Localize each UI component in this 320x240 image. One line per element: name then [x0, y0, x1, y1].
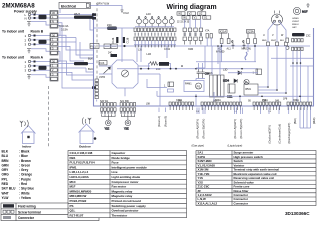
- svg-text:FU2: FU2: [124, 11, 130, 15]
- svg-text:LED1-9,LEDA: LED1-9,LEDA: [70, 175, 90, 179]
- svg-text:L20: L20: [146, 12, 151, 16]
- svg-text:: Grey: : Grey: [19, 168, 28, 172]
- connector S20 pins below bottom edge: [101, 108, 117, 111]
- svg-text:Y1E: Y1E: [105, 128, 110, 131]
- svg-text:M1F: M1F: [70, 185, 76, 189]
- svg-text:Room B: Room B: [31, 30, 44, 34]
- wire indoor Room B pin 1: [31, 35, 50, 37]
- connector X50A pins: [253, 102, 281, 105]
- wire bracket Y1E: [102, 114, 115, 120]
- svg-text:V2: V2: [189, 12, 193, 16]
- wire indoor Room B pin 2: [31, 39, 50, 41]
- svg-text:Intelligent power module: Intelligent power module: [112, 165, 148, 169]
- unit boundary dashed line lower: [48, 86, 50, 148]
- svg-text:: Sky blue: : Sky blue: [19, 187, 34, 191]
- svg-text:Capacitor: Capacitor: [112, 151, 127, 155]
- fan motor M1F symbol: [293, 7, 307, 14]
- wire compressor W: [279, 22, 286, 43]
- svg-text:: Yellow: : Yellow: [19, 196, 31, 200]
- svg-text:GRY: GRY: [2, 168, 10, 172]
- svg-text:: Red: : Red: [19, 182, 27, 186]
- indoor unit antenna: [20, 121, 23, 127]
- svg-text:W1: W1: [183, 16, 187, 20]
- svg-text:Thermistor: Thermistor: [112, 213, 129, 217]
- svg-text:32 33 34 35: 32 33 34 35: [177, 22, 190, 24]
- wire indoor Room B pin 3: [31, 43, 50, 45]
- svg-text:Diode bridge: Diode bridge: [112, 156, 131, 160]
- svg-text:: White: : White: [19, 191, 30, 195]
- diode arrow D5: [104, 67, 111, 74]
- svg-text:Connector: Connector: [234, 201, 249, 205]
- svg-text:U/RED: U/RED: [292, 18, 299, 20]
- svg-text:C: C: [232, 41, 234, 44]
- svg-text:WHT: WHT: [74, 12, 80, 16]
- ground indoor Room A earth symbol: [27, 75, 31, 79]
- svg-text:N: N: [25, 17, 27, 21]
- wire compressor leads to bus: [268, 45, 286, 47]
- connector X3A bank: [183, 28, 203, 41]
- wire bank2 pins: [185, 41, 201, 45]
- svg-text:BLK: BLK: [88, 57, 93, 61]
- svg-text:(Room A): (Room A): [157, 116, 161, 127]
- svg-text:: Brown: : Brown: [19, 159, 31, 163]
- node junction dots: [181, 45, 287, 94]
- svg-text:SKY BLU: SKY BLU: [2, 187, 17, 191]
- svg-text:Live: Live: [112, 170, 118, 174]
- wire reactor feed vertical: [217, 46, 219, 64]
- wire expansion valve harness right: [300, 108, 311, 129]
- connector X106A pins row 1: [292, 39, 304, 42]
- wire center vertical drops: [122, 46, 240, 106]
- wire fan bus down: [290, 51, 314, 106]
- field wiring symbol: [3, 204, 36, 208]
- svg-text:L1R,L1,L2,L4: L1R,L1,L2,L4: [70, 170, 89, 174]
- svg-text:X11A,AL1,AL2: X11A,AL1,AL2: [198, 201, 218, 205]
- svg-text:N: N: [52, 20, 54, 24]
- svg-text:(RED): (RED): [314, 117, 316, 124]
- connector compressor terminals: [267, 42, 288, 46]
- screw terminal symbol: [3, 210, 41, 214]
- wire label smudges below pins: [101, 112, 136, 114]
- wire color labels compressor: [262, 40, 285, 42]
- svg-text:BLK: BLK: [280, 40, 285, 42]
- svg-text:Switching power supply: Switching power supply: [112, 204, 147, 208]
- thermistor leads outdoor/condenser/discharge: [261, 108, 289, 115]
- svg-text:: Green: : Green: [19, 163, 30, 167]
- svg-text:(Room B)(GRY): (Room B)(GRY): [202, 119, 206, 139]
- wire transformer primary feeds: [196, 46, 220, 75]
- svg-text:X50A: X50A: [262, 99, 268, 102]
- magnetic relay contact K3: [150, 16, 155, 27]
- outdoor house icon: [79, 124, 97, 144]
- compressor motor M1C terminal fan-out: [272, 11, 283, 26]
- node junction dots on dc bus: [140, 68, 243, 70]
- connector X40A pins: [201, 102, 242, 105]
- svg-text:Electrical: Electrical: [61, 4, 76, 8]
- wire IPM outputs: [258, 46, 286, 93]
- node bus junction: [123, 45, 125, 47]
- svg-text:MR(CW): MR(CW): [242, 48, 251, 51]
- svg-text:IPM1: IPM1: [70, 165, 77, 169]
- noise filter ZF (octagon box): [112, 60, 138, 88]
- magnetic relay contact K4: [156, 16, 161, 27]
- capacitor C136: [116, 37, 118, 43]
- svg-text:Y2E: Y2E: [124, 128, 129, 131]
- wire power supply L: [31, 14, 50, 16]
- relay coil MRCW squiggle: [245, 52, 247, 60]
- svg-text:GRN: GRN: [2, 163, 10, 167]
- svg-text:BLU: BLU: [88, 67, 93, 71]
- magnetic relay contact K1: [137, 16, 142, 27]
- svg-text:3.15A: 3.15A: [61, 27, 68, 31]
- svg-text:C138: C138: [127, 37, 130, 43]
- wire caps bus: [196, 78, 205, 80]
- fuse FU1: [90, 44, 99, 49]
- component table right: [196, 151, 316, 206]
- radio waves indoor: [25, 120, 29, 127]
- wire GRY/YLW earth wire: [90, 6, 122, 11]
- faston terminals W1 V1 U1: [182, 16, 211, 20]
- svg-text:L3D: L3D: [223, 69, 228, 72]
- svg-text:Fuse: Fuse: [112, 161, 119, 165]
- wire signal line left stub: [156, 91, 158, 96]
- light emitting diode LED4: [223, 79, 237, 83]
- svg-text:RED: RED: [262, 40, 267, 42]
- svg-text:(Gas pipe): (Gas pipe): [192, 144, 205, 148]
- terminal strip X2M group 1 (power): [50, 11, 58, 29]
- magnetic relay contact K5: [163, 16, 168, 27]
- svg-text:MR4,MRCW: MR4,MRCW: [70, 194, 87, 198]
- magnetic relay contact K6: [169, 16, 174, 27]
- ground power supply earth symbol: [27, 22, 31, 27]
- svg-text:X60A: X60A: [293, 99, 299, 102]
- electronic expansion valve coil Y2E: [124, 120, 131, 131]
- outdoor unit antenna: [88, 118, 91, 124]
- svg-text:Screw terminal: Screw terminal: [18, 210, 41, 214]
- transformer M1 (two windings): [210, 72, 225, 97]
- lead size labels: [196, 111, 272, 113]
- capacitor C132 (symbol): [197, 69, 201, 79]
- electronic expansion valve coil Y1E: [105, 120, 112, 131]
- PCB1 outdoor unit board outline: [94, 13, 314, 106]
- wire fan motor color labels: [292, 18, 300, 29]
- wire relay row bus: [135, 26, 174, 28]
- terminal strip X1M bank row 1: [134, 28, 176, 32]
- ground top-right earth symbol: [306, 3, 309, 7]
- capacitor C201 tick: [232, 41, 235, 50]
- wire bank to ZF drop: [136, 47, 138, 62]
- connector S20 pins above bottom edge: [101, 103, 117, 106]
- ferrite core Z2C: [107, 27, 117, 30]
- svg-text:MRM10,MRM20: MRM10,MRM20: [70, 189, 92, 193]
- svg-text:C: C: [243, 41, 245, 44]
- svg-text:Printed circuit board: Printed circuit board: [112, 199, 142, 203]
- svg-text:Light emitting diode: Light emitting diode: [112, 175, 141, 179]
- switching power supply PS (PAM1): [184, 81, 204, 92]
- wire indoor Room B earth: [31, 49, 50, 52]
- svg-text:Fan motor: Fan motor: [112, 185, 127, 189]
- wire through Z2C: [94, 27, 135, 29]
- svg-text:W2: W2: [178, 12, 182, 16]
- svg-text:V2TR: V2TR: [99, 76, 105, 79]
- svg-text:W/BLK: W/BLK: [292, 24, 299, 26]
- node bus crossing dots: [221, 45, 256, 47]
- svg-text:AL1: AL1: [227, 48, 232, 51]
- svg-text:(Room B)(GRY): (Room B)(GRY): [239, 119, 243, 139]
- svg-text:2MXM68A8: 2MXM68A8: [2, 3, 35, 10]
- wire colour legend: [2, 150, 35, 200]
- svg-text:C111,C136,C138: C111,C136,C138: [70, 151, 93, 155]
- connector group S20/W1 S21/S80 labels: [100, 101, 130, 103]
- symbol legend table: [1, 203, 99, 221]
- wire drop x141: [140, 46, 142, 62]
- cable harness Room B: [39, 40, 47, 44]
- svg-text:: Black: : Black: [19, 150, 30, 154]
- intelligent power module IPM1: [244, 84, 258, 95]
- svg-text:Wiring diagram: Wiring diagram: [167, 4, 217, 11]
- wire X23A drops: [248, 44, 255, 62]
- terminal strip X2M group 2 (Room B): [50, 33, 58, 55]
- svg-text:IPM1: IPM1: [245, 88, 251, 91]
- connector X21A (AL2/AL1): [219, 30, 230, 44]
- svg-text:3D130366C: 3D130366C: [285, 211, 310, 216]
- connector X23A (MR CW): [247, 30, 257, 44]
- svg-text:Field wiring: Field wiring: [18, 205, 36, 209]
- wire earth terminal drop: [59, 9, 61, 13]
- svg-text:(Room A)(GRY): (Room A)(GRY): [233, 119, 237, 139]
- wire reactor loop: [149, 64, 150, 69]
- svg-text:L30: L30: [138, 48, 143, 51]
- svg-text:WHT: WHT: [2, 191, 9, 195]
- connector X30A pins: [169, 102, 194, 105]
- resistor array R chain (vertical): [95, 79, 98, 99]
- thermistor leads (liquid pipe): [235, 108, 243, 115]
- svg-text:L1R: L1R: [147, 53, 152, 56]
- svg-text:Compressor motor: Compressor motor: [112, 180, 140, 184]
- ferrite core Z3C (black band): [292, 33, 305, 36]
- cable harness to PCB 1: [74, 16, 93, 19]
- svg-text:BRN: BRN: [2, 159, 10, 163]
- svg-text:Magnetic relay: Magnetic relay: [112, 189, 133, 193]
- svg-text:(Room A)(GRY): (Room A)(GRY): [196, 119, 200, 139]
- wire strip group1 to PCB with harness: [58, 14, 94, 16]
- svg-text:PAM1: PAM1: [185, 83, 192, 86]
- svg-text:BLK: BLK: [2, 150, 9, 154]
- svg-text:V/WHT: V/WHT: [292, 21, 300, 23]
- svg-text:(Liquid pipe): (Liquid pipe): [228, 144, 243, 148]
- svg-text:Q1L: Q1L: [70, 209, 76, 213]
- svg-text:X7A: X7A: [205, 30, 210, 33]
- wire long signal line: [157, 95, 314, 97]
- svg-text:Z3C: Z3C: [306, 35, 311, 38]
- diode D1: [238, 71, 241, 75]
- svg-text:Connector: Connector: [18, 216, 35, 220]
- cable harness power supply: [39, 15, 47, 19]
- indoor house icon: [21, 126, 36, 144]
- wire group3 extra links: [58, 61, 94, 75]
- svg-text:LED4: LED4: [223, 80, 230, 83]
- ground indoor Room B earth symbol: [27, 49, 31, 53]
- svg-text:Room A: Room A: [31, 56, 44, 60]
- svg-text:DB1: DB1: [70, 156, 76, 160]
- wire group2 extra links: [58, 35, 94, 50]
- component table left: [68, 151, 187, 218]
- wire DB1 leads: [99, 66, 160, 106]
- svg-text:ORG: ORG: [2, 173, 10, 177]
- thermistor leads (gas pipe): [197, 108, 205, 115]
- svg-text:FU3: FU3: [100, 62, 105, 65]
- wire bus vertical left: [121, 28, 123, 46]
- terminal strip X2M group 3 (Room A): [50, 59, 58, 81]
- wire PS link: [195, 79, 197, 81]
- transistor Q1: [244, 79, 249, 84]
- wire power supply earth: [31, 22, 50, 26]
- cable harness Room A: [39, 66, 47, 70]
- faston terminals W2 V2 U2: [177, 12, 206, 16]
- wire bank pin drops: [135, 41, 175, 45]
- svg-text:(Discharge)(GRY): (Discharge)(GRY): [287, 123, 291, 144]
- earth terminal box: [59, 2, 90, 8]
- capacitor C111 (electrolytic): [227, 84, 235, 99]
- main bus wire: [99, 45, 310, 47]
- capacitor C138: [123, 37, 125, 43]
- wire strip group3 to PCB with harness: [58, 63, 94, 65]
- terminal strip X1M bank row 2: [134, 37, 176, 41]
- svg-text:X21A: X21A: [220, 30, 227, 34]
- svg-text:X2M: X2M: [188, 48, 193, 51]
- svg-text:M1: M1: [210, 72, 214, 75]
- svg-text:PS: PS: [70, 204, 74, 208]
- svg-text:M1C: M1C: [70, 180, 77, 184]
- wire indoor Room A earth: [31, 75, 50, 78]
- svg-text:C136: C136: [112, 37, 115, 43]
- wire right top link: [271, 57, 314, 59]
- wire bracket Y2E: [121, 114, 134, 120]
- svg-text:U: U: [263, 34, 265, 37]
- svg-text:: Orange: : Orange: [19, 173, 32, 177]
- connector symbol: [3, 216, 35, 220]
- svg-text:PCB1,PCB2: PCB1,PCB2: [70, 199, 87, 203]
- reactor L1R (coil + body): [147, 53, 170, 71]
- wire diode bus: [228, 72, 258, 74]
- connector S21 pins above bottom edge: [120, 103, 136, 106]
- wire label smudge row (conductor colors): [135, 33, 176, 36]
- svg-text:GRY: GRY: [292, 27, 297, 29]
- capacitor C202 tick: [243, 41, 246, 50]
- svg-text:To indoor unit: To indoor unit: [2, 56, 25, 60]
- node dots on fan verticals: [292, 62, 301, 64]
- svg-text:V1: V1: [194, 16, 198, 20]
- capacitor C134 (symbol): [201, 69, 210, 79]
- svg-text:(Outdoor)(GRY): (Outdoor)(GRY): [268, 125, 272, 144]
- svg-text:(Condenser/Coil): (Condenser/Coil): [278, 124, 282, 144]
- wire upper dc link: [196, 61, 256, 63]
- wire compressor U: [268, 22, 275, 43]
- connector mini box with pin 1: [253, 69, 262, 75]
- svg-text:RED: RED: [2, 182, 9, 186]
- svg-text:U2: U2: [199, 12, 203, 16]
- svg-text:Overload protector: Overload protector: [112, 209, 140, 213]
- svg-text:FU1,FU2,FU3,FU4: FU1,FU2,FU3,FU4: [70, 161, 96, 165]
- wire indoor Room A pin 1: [31, 61, 50, 63]
- connector id labels above bottom edge: [146, 101, 280, 106]
- svg-text:FU1: FU1: [91, 45, 97, 49]
- svg-text:X40A: X40A: [215, 99, 221, 102]
- svg-text:: Purple: : Purple: [19, 177, 31, 181]
- svg-text:R1T-R10T: R1T-R10T: [70, 213, 84, 217]
- wire dc bus: [117, 68, 258, 70]
- wire mid stub leads: [159, 108, 166, 113]
- connector X106A pins row 2: [292, 47, 304, 50]
- svg-text:PS: PS: [197, 85, 201, 89]
- node dots on signal line: [195, 96, 301, 98]
- wire strip chain links: [58, 26, 60, 62]
- thermal protector Q1L: [286, 38, 289, 49]
- svg-text:X30A: X30A: [176, 99, 182, 102]
- wire indoor Room A pin 3: [31, 69, 50, 71]
- wire indoor Room A pin 2: [31, 65, 50, 67]
- wire resistor chain lead: [96, 100, 98, 102]
- wire AL2 drop: [221, 44, 223, 62]
- magnetic relay contact K2: [143, 16, 148, 27]
- wire bank bottom bus: [134, 44, 176, 46]
- svg-text:1P8: 1P8: [283, 98, 288, 101]
- svg-text:(BLK): (BLK): [295, 118, 297, 124]
- radio waves outdoor: [82, 118, 86, 125]
- svg-text:X23A: X23A: [247, 30, 254, 34]
- connector mini box 1 (left): [147, 79, 174, 92]
- wire faston leads: [185, 19, 201, 28]
- connector X60A pins: [287, 102, 312, 105]
- wire strip group2 to PCB: [58, 37, 76, 39]
- svg-text:Outdoor: Outdoor: [79, 144, 92, 148]
- svg-text:FU4 3A: FU4 3A: [60, 24, 69, 28]
- cable harness to PCB 2: [74, 62, 88, 65]
- ferrite core Z6C small: [108, 52, 117, 57]
- svg-text:U1: U1: [204, 16, 208, 20]
- svg-text:24C: 24C: [108, 52, 113, 54]
- svg-text:PPL: PPL: [2, 177, 8, 181]
- wire comm line chain: [58, 23, 94, 88]
- svg-text:Z2C: Z2C: [107, 23, 112, 27]
- fuse FU3: [99, 61, 107, 66]
- svg-text:YLW: YLW: [2, 196, 9, 200]
- connector entry dark cell low: [92, 86, 96, 89]
- svg-text:Indoor: Indoor: [22, 144, 32, 148]
- svg-text:To indoor unit: To indoor unit: [2, 30, 25, 34]
- svg-text:Magnetic relay: Magnetic relay: [112, 194, 133, 198]
- svg-text:MRM20: MRM20: [216, 51, 225, 54]
- wire power supply N: [31, 17, 50, 19]
- wire compressor V: [276, 24, 278, 42]
- connector S21 pins below bottom edge: [120, 108, 136, 111]
- connector X11A small: [205, 30, 212, 47]
- fuse FU3 boxes on bus: [104, 44, 117, 49]
- svg-text:BLU: BLU: [2, 154, 9, 158]
- ground earth arrow symbol: [121, 10, 124, 12]
- svg-text:: Blue: : Blue: [19, 154, 28, 158]
- svg-text:M1F: M1F: [302, 10, 308, 14]
- connector X1A at PCB edge: [92, 13, 96, 19]
- svg-text:(Room B): (Room B): [164, 116, 168, 127]
- svg-text:GRY/YLW: GRY/YLW: [97, 2, 110, 6]
- unit boundary dashed line upper: [96, 3, 98, 86]
- svg-text:WHT: WHT: [271, 40, 277, 42]
